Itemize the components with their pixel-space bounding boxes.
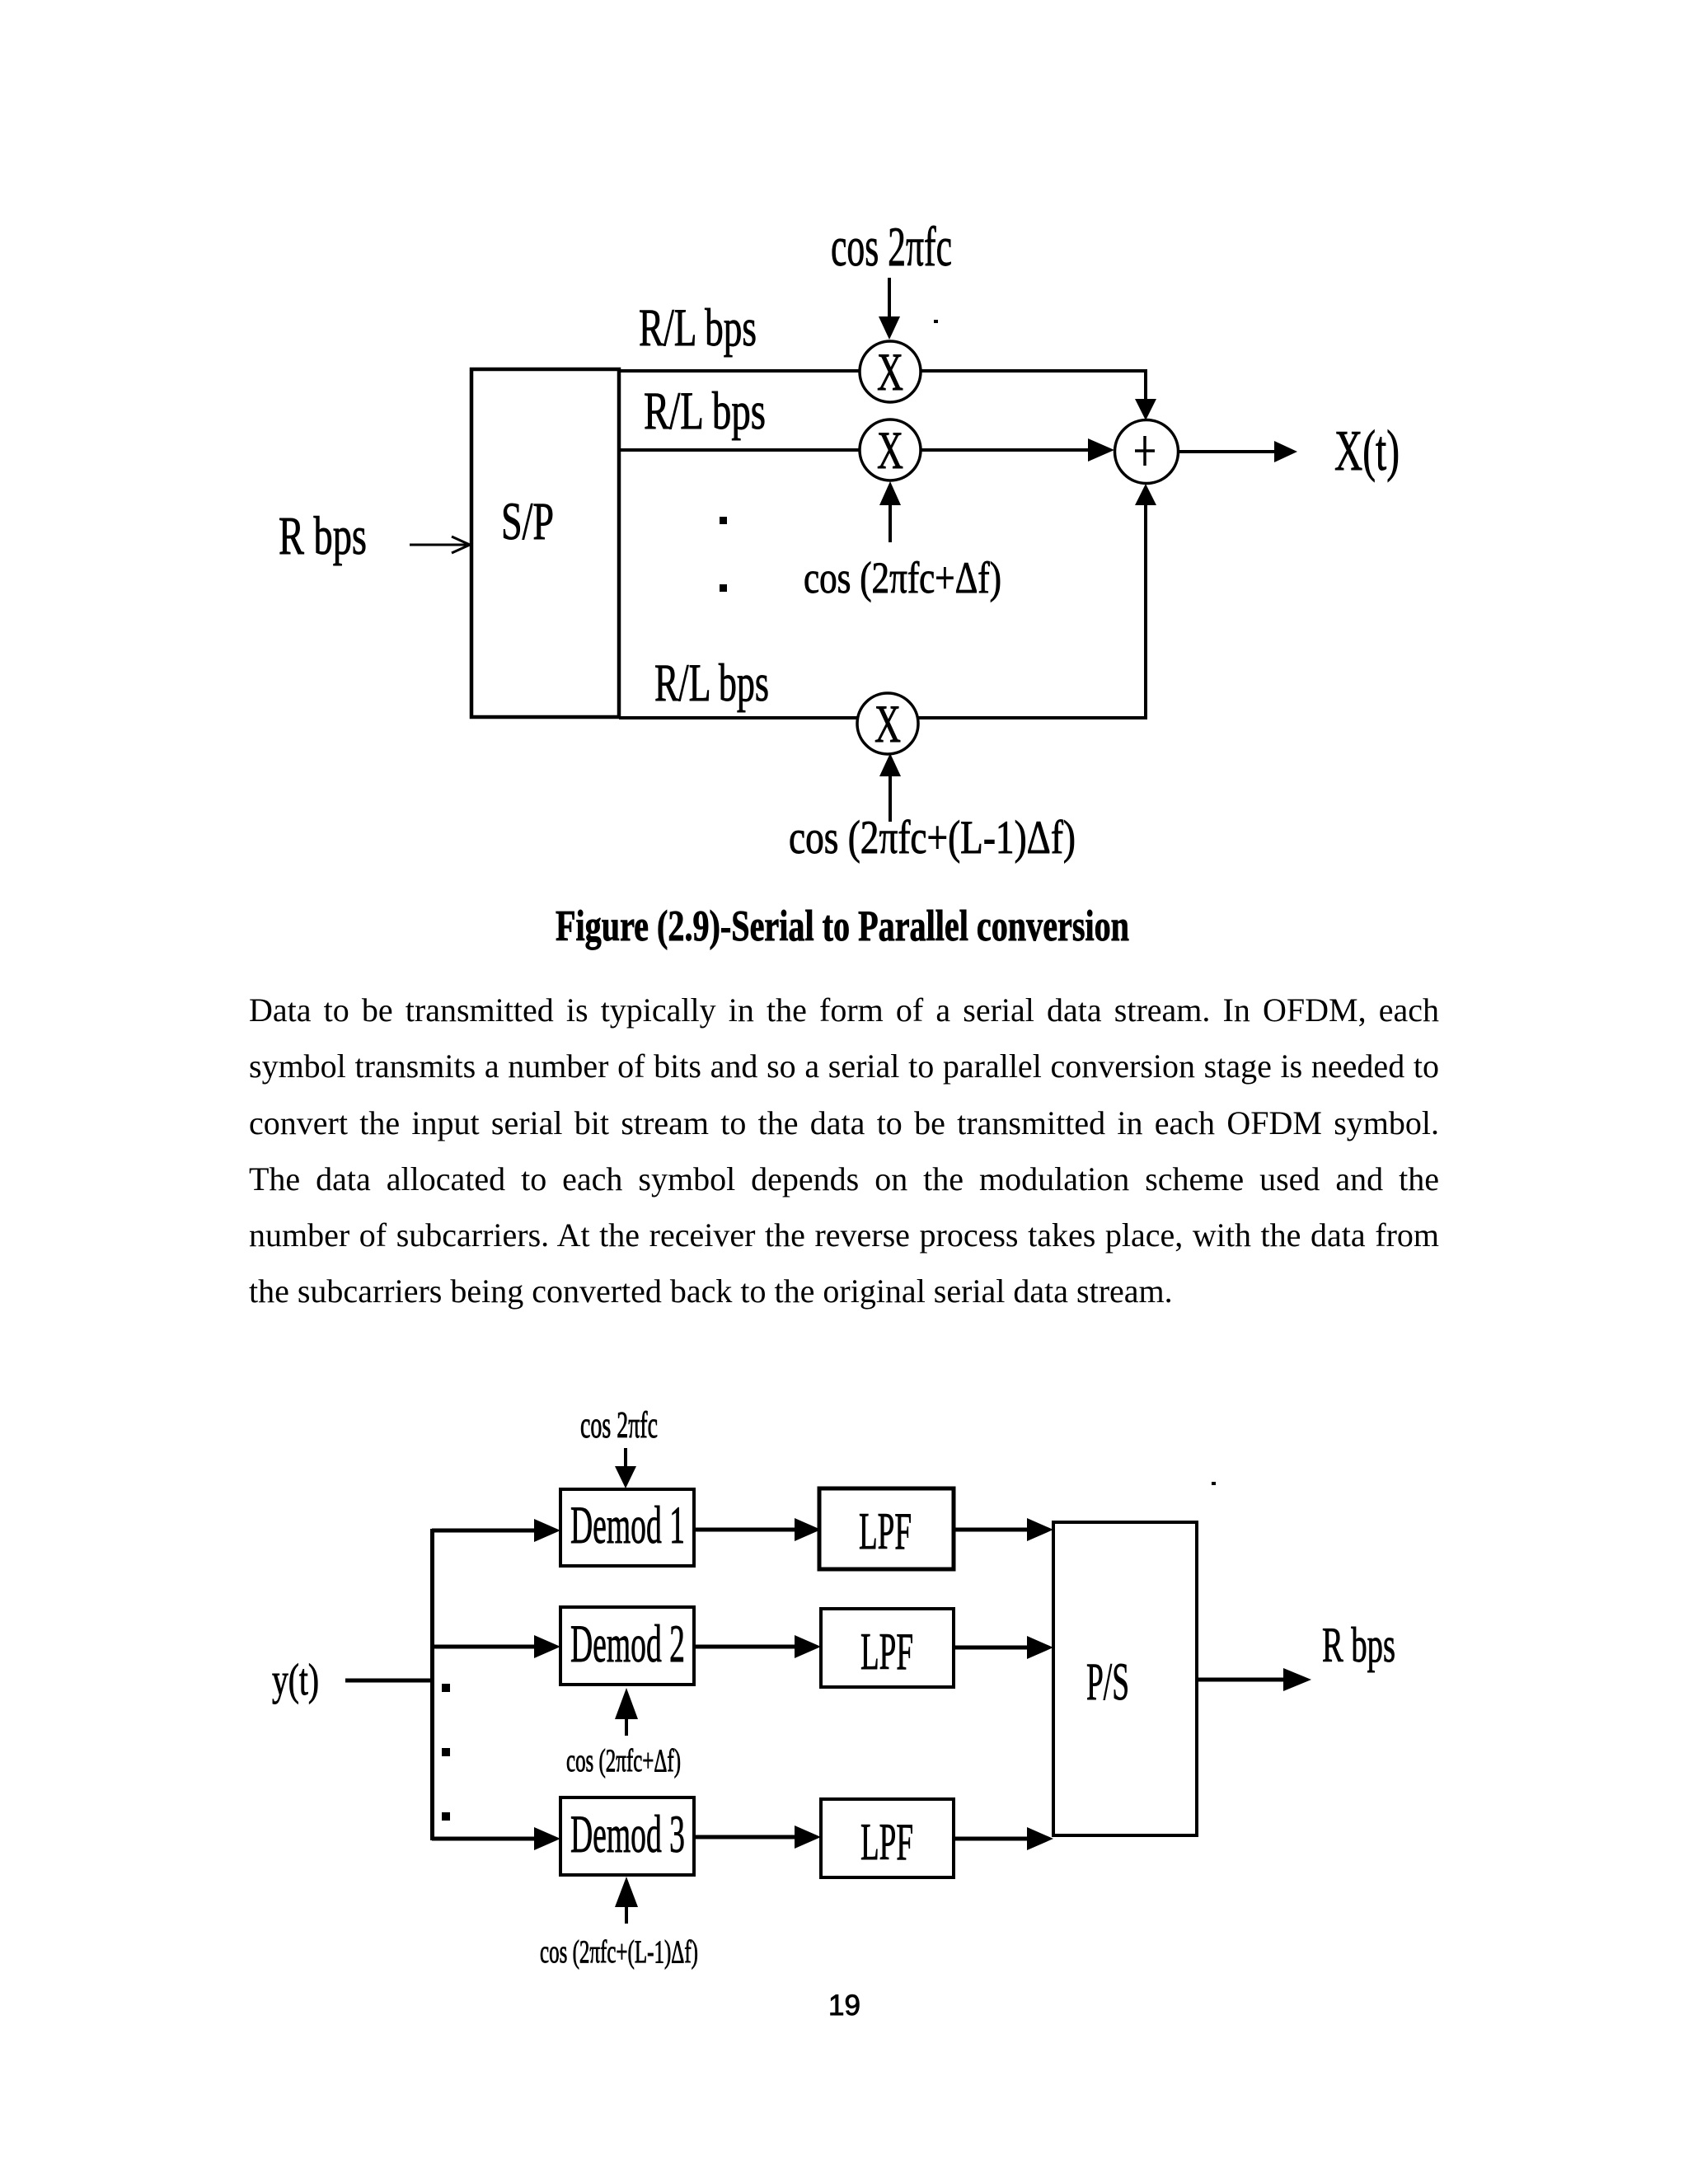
wire branch1 S/P to mixer X1: [619, 369, 859, 373]
wire trunk to Demod 3: [432, 1837, 536, 1841]
svg-text:LPF: LPF: [860, 1623, 913, 1680]
arrow up into Demod 2 bottom: [625, 1718, 628, 1736]
block Demod 1: [560, 1489, 694, 1566]
summer (+): [1115, 420, 1179, 484]
svg-text:P/S: P/S: [1086, 1652, 1129, 1712]
wire P/S output R bps: [1197, 1678, 1285, 1682]
arrowhead into summer left: [1088, 438, 1114, 462]
block P/S: [1053, 1522, 1197, 1835]
block LPF 1: [819, 1488, 954, 1569]
svg-text:X(t): X(t): [1334, 419, 1400, 483]
block LPF 2: [821, 1609, 954, 1687]
wire LPF2 to P/S: [954, 1646, 1027, 1650]
svg-text:cos (2πfc+(L-1)Δf): cos (2πfc+(L-1)Δf): [540, 1934, 698, 1970]
svg-text:Demod 1: Demod 1: [570, 1496, 685, 1555]
wire mixer X1 to summer corner: [921, 369, 1147, 373]
wire branch L S/P to mixer X3: [619, 716, 857, 719]
wire arrow cos(2pifc+df) into mixer X2: [889, 504, 892, 542]
wire Demod1 to LPF1: [694, 1528, 796, 1532]
svg-text:R bps: R bps: [279, 506, 367, 566]
block S/P: [471, 369, 619, 717]
svg-text:y(t): y(t): [272, 1655, 319, 1704]
wire Demod3 to LPF3: [694, 1835, 796, 1840]
svg-text:X: X: [874, 695, 901, 754]
wire mixer X2 to summer left: [921, 448, 1088, 452]
trunk dots: [442, 1684, 450, 1692]
arrowhead into summer top: [1135, 399, 1156, 420]
wire trunk to Demod 1: [432, 1529, 536, 1533]
svg-text:cos (2πfc+Δf): cos (2πfc+Δf): [804, 553, 1001, 602]
wire R bps input arrow: [410, 537, 470, 553]
svg-text:X: X: [877, 421, 903, 480]
svg-text:cos 2πfc: cos 2πfc: [580, 1404, 658, 1446]
svg-text:R bps: R bps: [1322, 1618, 1395, 1672]
mixer X2: [860, 419, 921, 480]
mixer X1: [860, 341, 921, 402]
trunk vertical: [430, 1529, 434, 1840]
wire mixer X3 to lower corner: [918, 716, 1147, 719]
svg-text:R/L bps: R/L bps: [654, 654, 769, 713]
svg-text:X: X: [877, 343, 903, 402]
svg-text:cos (2πfc+(L-1)Δf): cos (2πfc+(L-1)Δf): [789, 812, 1076, 864]
svg-text:cos (2πfc+Δf): cos (2πfc+Δf): [566, 1743, 681, 1779]
svg-text:LPF: LPF: [860, 1813, 913, 1871]
arrow up into Demod 3 bottom: [625, 1905, 628, 1924]
wire arrow into Demod 1 top: [624, 1448, 627, 1468]
wire LPF3 to P/S: [954, 1837, 1027, 1841]
svg-text:R/L bps: R/L bps: [644, 382, 766, 441]
wire summer output X(t): [1178, 450, 1277, 453]
wire arrow cos2pifc into mixer X1: [888, 278, 891, 319]
wire branch2 S/P to mixer X2: [619, 448, 859, 452]
block Demod 2: [560, 1607, 694, 1685]
wire y(t) to trunk: [345, 1679, 434, 1683]
svg-text:Figure (2.9)-Serial to Paralle: Figure (2.9)-Serial to Parallel conversi…: [556, 902, 1129, 950]
svg-text:R/L bps: R/L bps: [639, 298, 757, 358]
wire arrow cos(2pifc+(L-1)df) into mixer X3: [889, 776, 892, 822]
svg-text:19: 19: [828, 1990, 860, 2022]
svg-text:cos 2πfc: cos 2πfc: [831, 215, 952, 278]
svg-text:LPF: LPF: [859, 1502, 912, 1560]
block LPF 3: [821, 1799, 954, 1877]
wire lower corner up to summer bottom: [1144, 504, 1147, 719]
wire LPF1 to P/S: [954, 1528, 1027, 1532]
svg-text:Demod 2: Demod 2: [570, 1615, 685, 1674]
stray speck: [934, 320, 938, 323]
wire corner down to summer top: [1144, 371, 1147, 399]
svg-text:S/P: S/P: [501, 492, 554, 551]
mixer X3: [857, 693, 918, 754]
stray speck bottom: [1212, 1482, 1216, 1485]
wire Demod2 to LPF2: [694, 1645, 796, 1649]
wire trunk to Demod 2: [432, 1645, 536, 1649]
svg-text:Demod 3: Demod 3: [570, 1805, 685, 1864]
vertical dots between branch 2 and branch L: [720, 517, 727, 524]
arrowhead into summer bottom: [1135, 484, 1156, 505]
block Demod 3: [560, 1797, 694, 1875]
